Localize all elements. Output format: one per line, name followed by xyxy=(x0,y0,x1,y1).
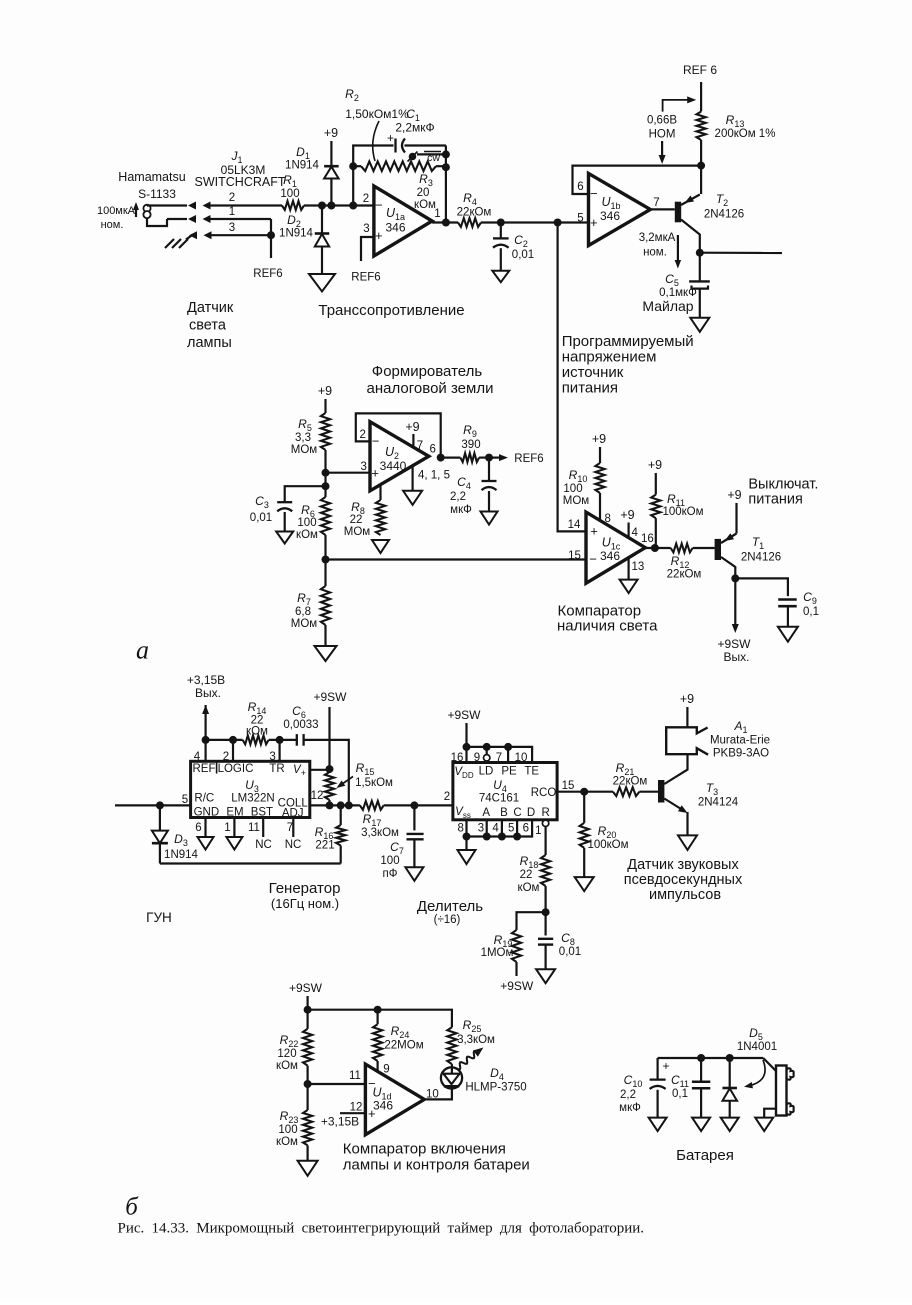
svg-text:0,0033: 0,0033 xyxy=(283,719,318,731)
capacitor C7 100pF xyxy=(380,805,423,880)
svg-text:питания: питания xyxy=(562,380,618,397)
svg-text:8: 8 xyxy=(605,513,611,525)
svg-text:кОм: кОм xyxy=(414,199,436,211)
svg-text:346: 346 xyxy=(373,1099,393,1113)
capacitor C3 0,01 xyxy=(250,486,326,531)
svg-text:импульсов: импульсов xyxy=(649,887,721,903)
chassis ground at jack xyxy=(165,235,192,248)
svg-text:Компаратор включения: Компаратор включения xyxy=(343,1141,506,1158)
label power switch xyxy=(748,477,818,508)
svg-text:Вых.: Вых. xyxy=(724,650,750,664)
svg-text:2: 2 xyxy=(363,193,369,205)
svg-text:2,2: 2,2 xyxy=(620,1089,636,1101)
svg-text:6: 6 xyxy=(429,444,435,456)
ground below C3 xyxy=(276,532,293,544)
svg-text:Murata-Erie: Murata-Erie xyxy=(710,735,770,747)
resistor R18 22 kOm xyxy=(518,827,551,913)
svg-text:+: + xyxy=(371,466,379,481)
node U1c output xyxy=(645,547,670,549)
svg-text:120: 120 xyxy=(277,1048,296,1060)
wire U1d +input +3,15V xyxy=(321,1113,366,1128)
net +9SW for U3 xyxy=(313,690,347,769)
diode D5 1N4001 xyxy=(722,1026,777,1118)
svg-text:100кОм: 100кОм xyxy=(587,839,628,851)
svg-text:6: 6 xyxy=(523,823,529,835)
svg-text:22: 22 xyxy=(520,869,533,881)
svg-text:1,5кОм: 1,5кОм xyxy=(355,777,393,789)
node T2 collector xyxy=(696,249,704,257)
ground below D2 xyxy=(309,274,335,292)
svg-text:2N4126: 2N4126 xyxy=(704,209,744,221)
svg-text:источник: источник xyxy=(562,364,624,381)
svg-text:ном.: ном. xyxy=(643,247,667,259)
wire divider node to U1c -input xyxy=(326,558,587,560)
svg-text:аналоговой земли: аналоговой земли xyxy=(367,380,494,397)
svg-text:REF6: REF6 xyxy=(351,272,380,284)
node REF6 output xyxy=(485,454,493,462)
svg-text:+9: +9 xyxy=(680,692,694,706)
op-amp U1c 346 xyxy=(568,512,654,583)
svg-text:0,1: 0,1 xyxy=(672,1088,688,1100)
resistor R11 100kOm xyxy=(651,492,703,518)
svg-text:+9: +9 xyxy=(318,384,332,398)
node C3 branch node xyxy=(322,482,330,490)
resistor R1 100 xyxy=(280,173,304,210)
wire LED to U1d output xyxy=(424,1088,452,1099)
wire U1b feedback rail xyxy=(573,166,702,194)
wire U3 pin10 stub xyxy=(310,769,330,771)
svg-text:100: 100 xyxy=(280,188,299,200)
svg-text:−: − xyxy=(590,186,598,201)
svg-text:+9SW: +9SW xyxy=(717,637,751,651)
svg-text:Рис. 14.33. Микромощный светои: Рис. 14.33. Микромощный светоинтегрирующ… xyxy=(118,1221,645,1237)
node RCO/R20 junction xyxy=(580,788,588,796)
svg-text:2,2: 2,2 xyxy=(450,491,466,503)
svg-text:D: D xyxy=(527,807,535,819)
wire U3 pin12 COLL output xyxy=(310,790,360,805)
svg-text:PE: PE xyxy=(501,766,517,778)
svg-text:TE: TE xyxy=(524,766,539,778)
wire C6 to R15 bottom rail xyxy=(304,740,349,806)
svg-text:0,01: 0,01 xyxy=(250,512,272,524)
diode D1 1N914 xyxy=(285,145,339,206)
svg-text:12: 12 xyxy=(311,790,324,802)
svg-text:Вых.: Вых. xyxy=(195,686,221,700)
svg-text:наличия света: наличия света xyxy=(557,618,658,635)
svg-text:1: 1 xyxy=(224,822,230,834)
ground below T3 xyxy=(678,835,697,850)
svg-text:3,3кОм: 3,3кОм xyxy=(457,1034,495,1046)
svg-text:4: 4 xyxy=(632,527,639,539)
capacitor C10 2,2uF xyxy=(619,1058,665,1118)
node C7 branch xyxy=(410,801,418,809)
sounder A1 Murata-Erie PKB9-3AO xyxy=(666,692,770,760)
svg-text:TR: TR xyxy=(269,763,284,775)
svg-text:+: + xyxy=(590,524,598,539)
svg-text:S-1133: S-1133 xyxy=(138,187,176,201)
svg-text:9: 9 xyxy=(383,1064,389,1076)
svg-text:Hamamatsu: Hamamatsu xyxy=(118,170,185,184)
wire U4 top rail xyxy=(467,747,533,763)
svg-text:лампы и контроля батареи: лампы и контроля батареи xyxy=(343,1157,530,1174)
svg-text:1N914: 1N914 xyxy=(285,160,319,172)
block label light presence comparator xyxy=(557,603,658,635)
wire comparator top rail xyxy=(308,1010,452,1027)
wire to REF6 stub xyxy=(253,235,282,280)
svg-text:+9SW: +9SW xyxy=(289,981,323,995)
svg-text:+9: +9 xyxy=(405,420,419,434)
resistor R16 221 xyxy=(315,805,346,863)
svg-text:+9: +9 xyxy=(727,488,741,502)
svg-text:346: 346 xyxy=(385,221,405,235)
svg-text:пФ: пФ xyxy=(383,868,398,880)
svg-text:6: 6 xyxy=(577,181,583,193)
resistor R6 100 kOm xyxy=(296,497,330,541)
resistor R21 22kOm xyxy=(613,761,658,796)
svg-text:+9: +9 xyxy=(324,126,338,140)
node J1 pin1/pin3 junction xyxy=(267,231,275,239)
transistor T1 2N4126 xyxy=(715,533,782,578)
svg-text:света: света xyxy=(189,318,227,334)
svg-text:МОм: МОм xyxy=(291,618,318,630)
capacitor C1 2,2uF xyxy=(387,107,446,153)
diode D2 1N914 xyxy=(279,206,329,275)
svg-text:+: + xyxy=(375,228,383,243)
svg-text:6: 6 xyxy=(195,822,201,834)
wire U1a +input to REF6 xyxy=(351,237,380,284)
svg-text:4: 4 xyxy=(492,823,499,835)
svg-text:+9: +9 xyxy=(648,458,662,472)
capacitor C4 2,2uF xyxy=(450,458,497,516)
svg-text:SWITCHCRAFT: SWITCHCRAFT xyxy=(195,175,286,189)
resistor R12 22kOm xyxy=(667,544,715,581)
+9 supply for R10 xyxy=(592,432,606,463)
svg-text:22МОм: 22МОм xyxy=(384,1040,423,1052)
node R18/R19/C8 junction xyxy=(542,908,550,916)
svg-text:Выключат.: Выключат. xyxy=(748,477,818,493)
ground below C7 xyxy=(405,867,423,881)
svg-text:+3,15В: +3,15В xyxy=(187,673,225,687)
connector J1 05LK3M SWITCHCRAFT labels xyxy=(195,149,286,189)
svg-text:100: 100 xyxy=(380,855,399,867)
svg-text:11: 11 xyxy=(349,1070,361,1082)
ground below D5 xyxy=(721,1118,739,1132)
svg-text:Датчик: Датчик xyxy=(187,300,234,316)
svg-text:REF6: REF6 xyxy=(253,268,282,280)
resistor R7 6,8 MOm xyxy=(291,586,330,630)
svg-text:−: − xyxy=(589,552,597,567)
svg-text:A: A xyxy=(482,807,490,819)
svg-text:+: + xyxy=(590,215,598,230)
current annotation 100uA nom with up arrow xyxy=(97,202,139,231)
+9 supply for R11 xyxy=(648,458,662,495)
svg-text:REF6: REF6 xyxy=(514,453,543,465)
svg-text:ном.: ном. xyxy=(101,219,124,231)
resistor R17 3,3kOm xyxy=(360,801,453,839)
svg-text:2N4126: 2N4126 xyxy=(741,552,781,564)
svg-text:GND: GND xyxy=(194,807,220,819)
svg-text:а: а xyxy=(136,636,149,665)
resistor R4 22kOm xyxy=(457,191,492,227)
svg-text:4, 1, 5: 4, 1, 5 xyxy=(418,470,450,482)
wire R13 to T2 emitter node xyxy=(700,140,702,194)
svg-text:кОм: кОм xyxy=(276,1136,298,1148)
svg-text:Транссопротивление: Транссопротивление xyxy=(318,302,464,319)
resistor R25 3,3kOm xyxy=(447,1018,495,1064)
transistor T3 2N4124 xyxy=(658,754,739,813)
svg-text:напряжением: напряжением xyxy=(562,349,657,366)
svg-text:13: 13 xyxy=(632,561,645,573)
svg-text:+9SW: +9SW xyxy=(447,708,481,722)
wire U2 pins 4,1,5 to ground xyxy=(412,466,414,491)
ground below C11 xyxy=(692,1118,710,1132)
capacitor C11 0,1 xyxy=(671,1058,710,1118)
svg-text:346: 346 xyxy=(600,209,620,223)
svg-text:7: 7 xyxy=(417,440,423,452)
block label divider xyxy=(417,898,483,926)
block label generator 16Hz xyxy=(269,880,341,911)
svg-text:2: 2 xyxy=(229,192,235,204)
svg-text:−: − xyxy=(372,434,380,449)
resistor R8 22 MOm xyxy=(344,484,385,538)
svg-text:3,3: 3,3 xyxy=(295,432,311,444)
svg-text:346: 346 xyxy=(600,549,620,563)
svg-text:BST: BST xyxy=(251,807,273,819)
ground below R8 xyxy=(372,540,389,553)
svg-text:МОм: МОм xyxy=(344,526,371,538)
svg-text:1: 1 xyxy=(535,825,541,837)
svg-text:C: C xyxy=(513,807,521,819)
resistor R10 100 MOm xyxy=(563,463,605,507)
wire T2 collector output xyxy=(700,252,782,255)
svg-text:1N914: 1N914 xyxy=(279,228,313,240)
svg-text:1N4001: 1N4001 xyxy=(737,1041,777,1053)
svg-text:22кОм: 22кОм xyxy=(457,207,492,219)
svg-text:LOGIC: LOGIC xyxy=(218,763,254,775)
svg-text:100: 100 xyxy=(278,1124,297,1136)
svg-text:НОМ: НОМ xyxy=(649,129,676,141)
wire U1a output to R4 xyxy=(432,221,458,223)
ground below C2 xyxy=(492,271,509,283)
svg-text:+3,15В: +3,15В xyxy=(321,1115,359,1129)
svg-text:0,1: 0,1 xyxy=(803,606,819,618)
svg-text:REF 6: REF 6 xyxy=(683,63,717,77)
node summing junction dots xyxy=(318,202,326,210)
resistor R9 390 xyxy=(441,423,489,462)
block label light sensor (lamp) xyxy=(187,300,234,351)
svg-text:14: 14 xyxy=(568,519,581,531)
ground below C4 xyxy=(481,512,498,525)
svg-text:мкФ: мкФ xyxy=(450,504,472,516)
svg-text:Формирователь: Формирователь xyxy=(372,363,483,380)
svg-text:RCO: RCO xyxy=(531,787,557,799)
svg-text:100: 100 xyxy=(297,517,316,529)
capacitor C2 0,01 xyxy=(493,223,534,271)
net +3,15V output arrow xyxy=(187,673,225,740)
svg-text:11: 11 xyxy=(248,822,260,834)
svg-text:МОм: МОм xyxy=(563,495,590,507)
wire R10 to U1c pin 8 xyxy=(599,493,601,521)
node V+ pin10 junction xyxy=(326,765,334,773)
svg-text:100кОм: 100кОм xyxy=(662,506,703,518)
ground below R23 xyxy=(298,1161,318,1176)
svg-text:кОм: кОм xyxy=(276,1060,298,1072)
photodiode sensor Hamamatsu S-1133 xyxy=(118,170,185,226)
battery clip connector xyxy=(763,1058,794,1118)
svg-text:3: 3 xyxy=(360,461,366,473)
block label analog ground former xyxy=(367,363,494,397)
wire RCO output pin 15 xyxy=(557,780,613,792)
wire R4 to U1b +input xyxy=(481,221,589,223)
svg-text:3,3кОм: 3,3кОм xyxy=(361,827,399,839)
wire oscillator bottom rail xyxy=(160,862,341,864)
pin stubs U3 top xyxy=(194,740,280,763)
svg-text:(÷16): (÷16) xyxy=(434,914,461,926)
IC U3 LM322N timer box xyxy=(191,761,310,819)
wire feedback right riser xyxy=(445,146,447,223)
resistor R5 3,3 MOm xyxy=(291,413,330,456)
ground below connector xyxy=(755,1118,773,1132)
svg-text:3: 3 xyxy=(478,823,484,835)
wire T1 collector to C9 xyxy=(735,578,788,596)
wire U3 top rail xyxy=(206,739,243,741)
op-amp U2 3440 xyxy=(359,422,449,491)
svg-text:EM: EM xyxy=(226,807,243,819)
+9 supply for T1 emitter xyxy=(727,488,741,534)
node R13/T2/feedback junction xyxy=(697,162,705,170)
pin stubs U4 bottom xyxy=(457,820,541,837)
resistor R22 120 kOm xyxy=(276,1029,312,1110)
svg-text:200кОм 1%: 200кОм 1% xyxy=(715,128,776,140)
svg-text:б: б xyxy=(125,1194,139,1221)
svg-text:+9SW: +9SW xyxy=(313,690,347,704)
wire R11 to U1c output xyxy=(655,518,657,548)
ground below C5 xyxy=(690,318,709,332)
wire Vss rail to ground xyxy=(465,837,467,851)
ground below U1c xyxy=(620,580,638,594)
svg-text:22кОм: 22кОм xyxy=(613,776,648,788)
svg-text:15: 15 xyxy=(562,780,575,792)
svg-text:1N914: 1N914 xyxy=(164,849,198,861)
node R22/R23 divider xyxy=(304,1080,312,1088)
svg-text:кОм: кОм xyxy=(296,529,318,541)
svg-text:Датчик звуковых: Датчик звуковых xyxy=(627,857,739,873)
wire R7 to ground xyxy=(324,625,326,646)
annotation 3,2uA nom down arrow xyxy=(639,232,681,269)
svg-text:+: + xyxy=(387,131,394,145)
LED D4 HLMP-3750 xyxy=(441,1048,527,1094)
svg-text:0,01: 0,01 xyxy=(512,249,534,261)
+9 supply for R5 xyxy=(318,384,332,413)
svg-text:5: 5 xyxy=(508,823,514,835)
transistor T2 2N4126 xyxy=(650,192,744,253)
svg-text:B: B xyxy=(500,807,508,819)
svg-text:0,66В: 0,66В xyxy=(647,115,677,127)
net arrow REF6 xyxy=(489,453,544,465)
block label sound pseudo-second pulses xyxy=(624,857,743,903)
svg-text:1: 1 xyxy=(229,206,235,218)
node U2 output xyxy=(437,454,445,462)
svg-text:7: 7 xyxy=(287,822,293,834)
block label programmable voltage supply xyxy=(562,333,694,397)
svg-text:74C161: 74C161 xyxy=(479,793,519,805)
svg-text:ГУН: ГУН xyxy=(146,910,172,925)
wire R6 to divider node xyxy=(324,535,326,586)
svg-text:390: 390 xyxy=(461,439,480,451)
node U1b +input / programm. net xyxy=(554,219,562,227)
svg-text:питания: питания xyxy=(748,492,802,508)
pin stubs U4 top xyxy=(451,747,528,764)
svg-text:100мкА: 100мкА xyxy=(97,205,136,217)
svg-text:2: 2 xyxy=(444,791,450,803)
pin 1 reset bubble xyxy=(542,820,548,826)
wire U3 pin5 R/C input xyxy=(115,794,191,806)
wire jack pin 1 line xyxy=(167,206,271,235)
svg-text:5: 5 xyxy=(577,213,583,225)
svg-text:+9SW: +9SW xyxy=(500,979,534,993)
svg-text:cw: cw xyxy=(427,152,440,164)
svg-text:221: 221 xyxy=(315,840,334,852)
svg-text:Батарея: Батарея xyxy=(676,1147,734,1164)
resistor R14 22 kOm xyxy=(243,700,269,744)
ground below C9 xyxy=(778,627,798,642)
svg-text:+9: +9 xyxy=(592,432,606,446)
resistor R23 100 kOm xyxy=(276,1109,312,1161)
svg-text:3: 3 xyxy=(363,223,369,235)
ground below C10 xyxy=(649,1118,667,1132)
svg-text:2: 2 xyxy=(359,429,365,441)
block label lamp/battery comparator xyxy=(343,1141,530,1174)
node U2 +input node xyxy=(322,469,330,477)
capacitor C5 0,1uF mylar xyxy=(642,253,709,318)
resistor R13 200kOm 1% xyxy=(697,112,776,141)
svg-text:R: R xyxy=(541,807,549,819)
svg-text:NC: NC xyxy=(255,839,272,851)
IC U4 74C161 counter box xyxy=(453,763,557,821)
svg-text:NC: NC xyxy=(285,839,302,851)
net +9SW for comparator xyxy=(289,981,323,1029)
svg-text:2N4124: 2N4124 xyxy=(698,797,739,809)
svg-text:R/C: R/C xyxy=(194,793,214,805)
svg-text:Программируемый: Программируемый xyxy=(562,333,694,350)
resistor R19 1MOm xyxy=(481,912,546,993)
wire jack pin 3 line xyxy=(189,222,271,239)
svg-text:+: + xyxy=(662,1059,669,1073)
svg-text:0,01: 0,01 xyxy=(559,946,581,958)
svg-text:лампы: лампы xyxy=(187,335,232,351)
node T1 collector xyxy=(731,574,739,582)
resistor R20 100kOm xyxy=(580,792,629,877)
+9 supply for U1c pin 4 xyxy=(620,508,634,538)
svg-text:PKB9-3AO: PKB9-3AO xyxy=(713,748,769,760)
svg-text:7: 7 xyxy=(653,197,659,209)
resistor R24 22MOm xyxy=(373,1010,424,1072)
+9 supply pin 7 of U2 xyxy=(405,420,419,447)
svg-text:12: 12 xyxy=(350,1102,363,1114)
resistor R2 1,50kOm 1% (feedback, with R3 pot section) xyxy=(345,87,446,171)
op-amp U1b 346 xyxy=(577,173,659,245)
ground below R7 xyxy=(315,646,337,661)
net REF 6 top xyxy=(683,63,717,112)
svg-text:3440: 3440 xyxy=(380,459,407,473)
svg-text:кОм: кОм xyxy=(246,726,268,738)
node D3 junction xyxy=(156,801,164,809)
svg-text:100: 100 xyxy=(563,483,582,495)
svg-text:22: 22 xyxy=(350,514,363,526)
ground below R20 xyxy=(575,877,594,891)
svg-text:3,2мкА: 3,2мкА xyxy=(639,232,676,244)
ground below C8 xyxy=(536,969,555,983)
